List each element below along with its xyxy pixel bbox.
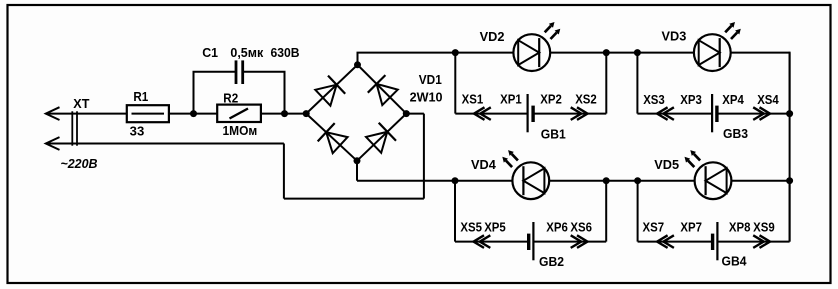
wire GB4 row left [638, 241, 713, 243]
junction row2 g3 left [452, 177, 459, 184]
LED VD2 [513, 34, 550, 71]
connector chevrons right of GB2 [571, 235, 582, 248]
diode bridge VD1 outline [306, 65, 406, 161]
battery GB3 [711, 94, 713, 132]
wire GB3 right rise [789, 53, 791, 114]
wire R1 to R2 [169, 113, 217, 115]
bridge left corner node [303, 110, 310, 117]
wire GB1 row right [533, 113, 606, 115]
wire GB4 right rise [789, 181, 791, 242]
svg-text:GB1: GB1 [541, 128, 566, 142]
svg-text:2W10: 2W10 [410, 91, 443, 105]
junction row2 g3 right [603, 177, 610, 184]
wire GB2 row right [533, 241, 606, 243]
wire GB1 right rise [605, 53, 607, 114]
svg-text:XP1: XP1 [500, 93, 522, 107]
svg-text:XP6: XP6 [546, 220, 568, 234]
svg-text:XP7: XP7 [680, 221, 702, 235]
svg-text:XS5: XS5 [460, 220, 482, 234]
wire C1 top right [243, 71, 286, 73]
svg-text:1МОм: 1МОм [223, 124, 258, 138]
wire bridge top up [357, 53, 359, 65]
wire C1 top left [193, 71, 237, 73]
svg-text:XS3: XS3 [643, 93, 665, 107]
svg-text:~220В: ~220В [61, 157, 98, 171]
wire LED row2 seg2 [549, 180, 695, 182]
LED VD3 [694, 34, 731, 71]
wire GB3 row left [637, 113, 712, 115]
svg-text:R2: R2 [223, 91, 238, 105]
VD5 emission arrows [694, 154, 700, 161]
svg-text:XS9: XS9 [753, 221, 775, 235]
wire return up crossing LED row 2 [423, 114, 425, 199]
wire LED row2 seg1 [357, 180, 513, 182]
svg-text:XP4: XP4 [722, 93, 744, 107]
junction top g1 right [603, 49, 610, 56]
wire R2 to bridge [261, 113, 306, 115]
LED VD4 [512, 162, 549, 199]
wire C1 branch left [193, 72, 195, 114]
wire C1 branch right [284, 72, 286, 114]
wire GB4 row right [717, 241, 789, 243]
junction row2 g4 left [634, 177, 641, 184]
connector chevrons right of GB4 [753, 235, 764, 248]
connector XT [71, 111, 73, 145]
svg-text:VD2: VD2 [480, 30, 505, 44]
battery GB2 [532, 222, 534, 260]
svg-text:VD5: VD5 [654, 158, 679, 172]
VD2 emission arrows [545, 26, 551, 33]
wire top rail seg3 [731, 52, 790, 54]
svg-text:R1: R1 [133, 90, 148, 104]
bridge diode top-right [377, 84, 398, 105]
battery GB1 [526, 94, 528, 132]
svg-text:VD3: VD3 [662, 30, 687, 44]
junction right rail row1 [786, 110, 793, 117]
svg-text:XP8: XP8 [729, 221, 751, 235]
wire GB1 left drop [454, 53, 456, 114]
wire GB2 right rise [605, 181, 607, 242]
bridge top corner node [354, 61, 361, 68]
svg-text:XS4: XS4 [757, 93, 779, 107]
wire GB2 row left [455, 241, 529, 243]
connector chevrons left of GB4 [657, 235, 668, 248]
svg-text:C1: C1 [202, 46, 218, 60]
bridge bottom corner node [354, 157, 361, 164]
svg-text:XP5: XP5 [484, 220, 506, 234]
svg-text:GB3: GB3 [723, 127, 748, 141]
svg-text:XS1: XS1 [462, 93, 484, 107]
wire GB1 row left [455, 113, 527, 115]
svg-text:VD1: VD1 [419, 73, 442, 87]
wire XT2 down [283, 144, 285, 199]
junction right rail row2 [786, 177, 793, 184]
VD3 emission arrows [725, 26, 731, 33]
wire GB2 left drop [454, 181, 456, 242]
XT arrow upper [46, 107, 60, 120]
connector chevrons right of GB3 [753, 107, 764, 120]
wire lower AC [46, 143, 284, 145]
bridge diode top-left [315, 85, 336, 106]
wire bridge bottom down [356, 161, 358, 181]
VD4 emission arrows [512, 154, 518, 161]
svg-text:0,5мк: 0,5мк [230, 46, 264, 60]
wire to bridge right corner [406, 113, 424, 115]
wire return bottom [284, 198, 424, 200]
battery GB4 [716, 222, 718, 260]
svg-text:33: 33 [130, 124, 145, 138]
junction top g2 left [634, 49, 641, 56]
connector chevrons left of GB3 [657, 107, 668, 120]
LED VD5 [695, 162, 732, 199]
resistor R1 [127, 105, 169, 122]
node B junction [281, 110, 288, 117]
svg-text:XS2: XS2 [575, 93, 597, 107]
svg-text:630В: 630В [271, 46, 300, 60]
node A junction [190, 110, 197, 117]
bridge diode bottom-left [326, 132, 347, 153]
wire top rail seg1 [357, 52, 514, 54]
wire top rail seg2 [550, 52, 694, 54]
wire upper AC [46, 113, 127, 115]
XT arrow lower [46, 137, 60, 150]
bridge right corner node [403, 110, 410, 117]
svg-text:XP2: XP2 [540, 93, 562, 107]
svg-text:XP3: XP3 [680, 93, 702, 107]
wire GB3 row right [717, 113, 790, 115]
svg-text:XT: XT [73, 97, 89, 111]
wire LED row2 seg3 [731, 180, 789, 182]
connector chevrons left of GB1 [474, 107, 485, 120]
svg-text:XS6: XS6 [570, 220, 592, 234]
wire GB3 left drop [636, 53, 638, 114]
svg-text:GB2: GB2 [539, 255, 564, 269]
resistor R2 [217, 105, 261, 122]
connector chevrons left of GB2 [474, 235, 485, 248]
bridge diode bottom-right [366, 132, 387, 153]
svg-text:XS7: XS7 [643, 221, 665, 235]
capacitor C1 [235, 60, 238, 84]
wire GB4 left drop [637, 181, 639, 242]
junction top g1 left [452, 49, 459, 56]
connector chevrons right of GB1 [571, 107, 582, 120]
svg-text:GB4: GB4 [722, 255, 747, 269]
svg-text:VD4: VD4 [471, 158, 496, 172]
wire right rail [789, 52, 791, 242]
